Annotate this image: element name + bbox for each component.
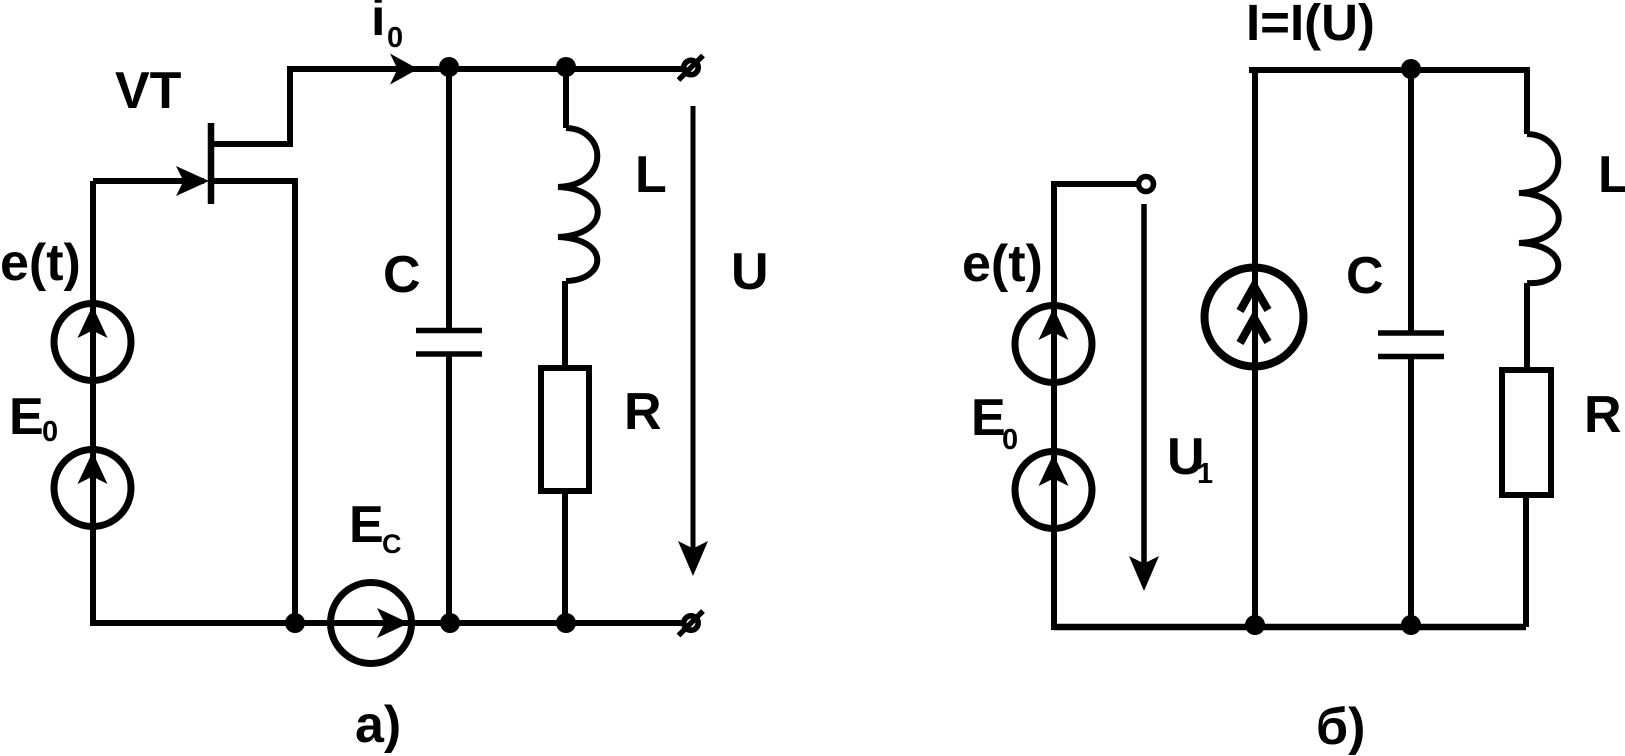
capacitor C (b): top lead bbox=[1408, 70, 1414, 331]
svg-text:VT: VT bbox=[115, 62, 182, 120]
label E0 bbox=[9, 388, 58, 448]
node A1 (capacitor top) bbox=[439, 57, 459, 77]
capacitor C: plates bbox=[416, 331, 482, 355]
svg-text:e(t): e(t) bbox=[0, 234, 81, 292]
open terminal (b) bbox=[1139, 177, 1154, 192]
wire: R to bottom rail (b) bbox=[1523, 495, 1529, 627]
svg-text:I=I(U): I=I(U) bbox=[1246, 0, 1375, 51]
svg-text:U: U bbox=[731, 243, 769, 301]
svg-text:C: C bbox=[1346, 247, 1384, 305]
capacitor C: top lead bbox=[446, 69, 452, 328]
source e(t): arrowhead bbox=[78, 306, 108, 338]
svg-text:1: 1 bbox=[1197, 458, 1213, 490]
wire: left branch vertical bbox=[90, 181, 96, 626]
svg-text:0: 0 bbox=[1002, 424, 1018, 456]
controlled current source I(U): circle bbox=[1205, 268, 1304, 367]
wire: controlled source branch vertical bbox=[1252, 70, 1258, 627]
svg-text:R: R bbox=[624, 383, 662, 441]
wire: gate from left branch bbox=[93, 178, 204, 184]
svg-text:C: C bbox=[383, 246, 421, 304]
capacitor C (b): bottom lead bbox=[1408, 358, 1414, 627]
node top (capacitor branch) bbox=[1401, 59, 1421, 79]
wire: L to R bbox=[562, 281, 568, 368]
svg-text:e(t): e(t) bbox=[962, 235, 1043, 293]
svg-text:E: E bbox=[349, 496, 384, 554]
node bottom of RL branch bbox=[556, 613, 576, 633]
node bottom of source branch (b) bbox=[1245, 615, 1265, 635]
wire: top rail of b and right corner down to coil bbox=[1249, 70, 1527, 134]
wire: e(t) branch vertical and top lead to open terminal bbox=[1054, 184, 1137, 630]
source e(t) (b): circle bbox=[1015, 306, 1092, 383]
terminal top-right (slashed) bbox=[679, 56, 704, 81]
capacitor C (b): plates bbox=[1378, 333, 1444, 357]
svg-text:E: E bbox=[971, 389, 1006, 447]
svg-text:R: R bbox=[1584, 386, 1622, 444]
node bottom of VT source branch bbox=[285, 613, 305, 633]
svg-text:0: 0 bbox=[387, 22, 403, 54]
source EC: circle on bottom rail bbox=[331, 583, 412, 664]
voltage arrow U (head) bbox=[678, 541, 708, 576]
inductor L coil bbox=[558, 128, 598, 281]
wire: bottom rail of b bbox=[1054, 624, 1526, 631]
svg-text:L: L bbox=[635, 146, 667, 204]
inductor L (b) coil bbox=[1519, 134, 1559, 283]
node bottom of capacitor branch bbox=[440, 613, 460, 633]
gate arrowhead into VT bbox=[176, 166, 209, 196]
transistor VT: source wire to bottom rail bbox=[211, 181, 295, 623]
svg-text:L: L bbox=[1598, 146, 1625, 204]
resistor R body bbox=[541, 368, 589, 491]
voltage arrow U1 (head) bbox=[1129, 556, 1159, 591]
current source chevron lower bbox=[1240, 318, 1268, 343]
resistor R (b) body bbox=[1502, 370, 1551, 495]
source E0: circle bbox=[54, 450, 131, 527]
svg-text:C: C bbox=[382, 529, 402, 559]
node A2 (L branch top) bbox=[556, 57, 576, 77]
svg-text:i: i bbox=[371, 0, 385, 47]
wire: L to R (b) bbox=[1524, 283, 1530, 370]
current source chevron upper bbox=[1240, 286, 1268, 311]
transistor VT: bar bbox=[208, 123, 215, 204]
wire: drain of VT up and top rail to terminal bbox=[211, 69, 682, 144]
svg-text:0: 0 bbox=[42, 416, 58, 448]
wire: top lead of L bbox=[563, 67, 569, 128]
source E0: arrowhead bbox=[78, 452, 108, 484]
source e(t): circle bbox=[54, 304, 131, 381]
svg-text:E: E bbox=[9, 388, 44, 446]
label U1 bbox=[1167, 428, 1213, 490]
svg-text:б): б) bbox=[1316, 698, 1365, 756]
source E0 (b): arrowhead bbox=[1039, 454, 1069, 486]
current arrow i0 on top rail bbox=[390, 54, 418, 85]
svg-text:а): а) bbox=[355, 696, 401, 754]
label E0 (b) bbox=[971, 389, 1018, 456]
node bottom of capacitor branch (b) bbox=[1401, 615, 1421, 635]
source E0 (b): circle bbox=[1015, 452, 1092, 529]
wire: bottom rail of a bbox=[90, 620, 682, 626]
capacitor C: bottom lead bbox=[446, 356, 452, 623]
source e(t) (b): arrowhead bbox=[1039, 308, 1069, 340]
terminal bottom-right (slashed) bbox=[679, 611, 704, 636]
wire: R to bottom rail bbox=[562, 491, 568, 623]
voltage arrow U1 (line) bbox=[1141, 204, 1147, 585]
voltage arrow U (line) bbox=[691, 106, 696, 570]
source EC: arrowhead bbox=[377, 608, 409, 638]
label EC bbox=[349, 496, 402, 559]
